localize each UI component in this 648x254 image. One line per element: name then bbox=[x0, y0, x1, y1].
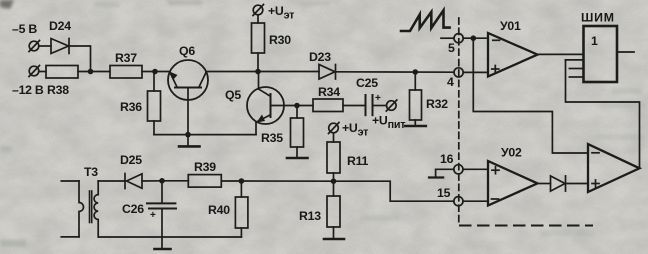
comparator 2 plus sign bbox=[592, 180, 599, 187]
svg-text:D24: D24 bbox=[49, 19, 71, 33]
svg-text:ШИМ: ШИМ bbox=[581, 11, 615, 25]
feedback wire from comparator 2 output to PWM bbox=[566, 60, 640, 168]
svg-text:15: 15 bbox=[437, 186, 451, 200]
resistor R35 bbox=[291, 118, 304, 147]
comparator 2 (output op-amp) bbox=[588, 144, 640, 192]
wire R40 bottom to rail bbox=[240, 228, 242, 237]
wire R39 to node E bbox=[221, 180, 241, 182]
svg-text:–12 В: –12 В bbox=[12, 83, 44, 97]
svg-text:R40: R40 bbox=[208, 203, 230, 217]
PWM block (ShIM) bbox=[584, 26, 618, 82]
ground rail under Q6 bbox=[154, 134, 256, 136]
wire U02 output to diode bbox=[538, 183, 551, 185]
U01 plus sign bbox=[492, 66, 499, 73]
wire node C down and right to comparator 2 bbox=[473, 38, 588, 153]
wire -5V to D24 bbox=[39, 45, 51, 47]
PWM stub pin b bbox=[569, 76, 583, 78]
wire R36 to ground rail bbox=[153, 121, 155, 135]
svg-text:Q6: Q6 bbox=[179, 44, 195, 58]
junction dot R30 bottom bbox=[255, 69, 261, 75]
svg-text:–5 В: –5 В bbox=[12, 22, 37, 36]
svg-text:5: 5 bbox=[448, 41, 455, 55]
wire node F to R13 bbox=[333, 181, 335, 196]
resistor R30 bbox=[252, 23, 265, 53]
svg-text:16: 16 bbox=[440, 152, 454, 166]
svg-text:D25: D25 bbox=[120, 153, 142, 167]
svg-text:+: + bbox=[375, 93, 381, 104]
junction dot R32 top bbox=[413, 69, 419, 75]
ground stub under R13 bbox=[324, 227, 344, 239]
resistor R39 bbox=[188, 175, 221, 188]
resistor R13 bbox=[327, 196, 340, 227]
wire R30 to rail bbox=[257, 53, 259, 72]
svg-text:+: + bbox=[150, 210, 156, 221]
diode after U02 bbox=[551, 176, 566, 191]
transformer T3 core bbox=[90, 191, 92, 223]
svg-text:R37: R37 bbox=[115, 51, 137, 65]
op-amp U02 bbox=[488, 161, 538, 206]
wire node D to R39 bbox=[162, 180, 188, 182]
wire R38 to node A bbox=[78, 71, 110, 73]
terminal +Uet lower bbox=[329, 123, 340, 134]
wire U01 output to PWM block bbox=[538, 53, 584, 55]
wire -12V to R38 bbox=[39, 71, 46, 73]
transformer T3 primary winding bbox=[79, 181, 84, 237]
PWM stub pin a bbox=[569, 68, 583, 70]
wire pin5 to U01 inverting input bbox=[463, 37, 488, 39]
PWM output wire bbox=[617, 51, 634, 53]
junction dot node D bbox=[159, 178, 165, 184]
wire node to R35 bbox=[296, 106, 298, 119]
op-amp U01 bbox=[488, 33, 538, 77]
wire C26 to ground rail bbox=[161, 209, 163, 238]
diode D23 bbox=[319, 65, 336, 80]
wire C25 to +Upit terminal bbox=[373, 105, 387, 107]
svg-text:C25: C25 bbox=[356, 76, 378, 90]
junction dot Q6 base on rail bbox=[185, 132, 191, 138]
ground symbol under rail bbox=[179, 135, 200, 147]
wire D23 to pin 4 bbox=[336, 71, 455, 73]
pin 5 circle bbox=[454, 34, 463, 43]
comparator 2 minus sign bbox=[592, 152, 599, 154]
wire D25 to node D bbox=[142, 180, 162, 182]
resistor R11 bbox=[327, 142, 340, 173]
IC boundary dashed vertical bbox=[458, 18, 460, 225]
ground stub under R35 bbox=[287, 147, 308, 158]
wire R11 to node F bbox=[333, 173, 335, 181]
transformer T3 secondary lead top bbox=[98, 180, 125, 182]
sawtooth waveform symbol bbox=[401, 10, 450, 31]
svg-text:У02: У02 bbox=[501, 146, 522, 160]
secondary ground rail bbox=[99, 236, 242, 238]
svg-text:C26: C26 bbox=[122, 202, 144, 216]
node A junction dot bbox=[88, 69, 94, 75]
U02 minus sign bbox=[492, 198, 499, 200]
svg-text:R35: R35 bbox=[261, 131, 283, 145]
svg-text:R30: R30 bbox=[269, 33, 291, 47]
wire D24 to node A bbox=[69, 46, 91, 72]
svg-text:R11: R11 bbox=[347, 154, 369, 168]
terminal +Uet top bbox=[253, 5, 264, 16]
IC boundary dashed horizontal bbox=[460, 225, 592, 227]
svg-text:Q5: Q5 bbox=[225, 88, 241, 102]
terminal +Upit bbox=[386, 100, 397, 111]
transformer T3 primary lead top bbox=[61, 180, 79, 182]
wire node B down to R36 bbox=[153, 72, 155, 92]
diode D24 bbox=[51, 39, 69, 54]
wire diode to comparator 2 plus input bbox=[566, 183, 589, 185]
transistor Q6 bbox=[168, 60, 208, 135]
resistor R36 bbox=[148, 91, 161, 121]
wire +Uet to R30 bbox=[257, 15, 259, 23]
diode D25 bbox=[125, 174, 142, 189]
wire pin16 to U02 noninverting input bbox=[463, 168, 488, 170]
wire node E to R40 bbox=[240, 181, 242, 197]
capacitor C26 bbox=[147, 203, 176, 208]
wire stub pin5 bbox=[441, 37, 454, 39]
capacitor C25 bbox=[366, 95, 373, 115]
svg-text:1: 1 bbox=[591, 34, 598, 48]
junction dot node C bbox=[471, 35, 477, 41]
resistor R34 bbox=[313, 99, 343, 112]
PWM feedback pin wire bbox=[566, 59, 584, 61]
svg-text:R39: R39 bbox=[194, 160, 216, 174]
svg-text:У01: У01 bbox=[500, 19, 521, 33]
wire R37 to Q6 base bbox=[142, 71, 170, 73]
wire node to R32 bbox=[414, 72, 416, 90]
resistor R38 bbox=[46, 66, 78, 79]
terminal -5V input bbox=[29, 41, 40, 52]
wire node F to pin 15 with jog bbox=[334, 181, 454, 201]
transformer T3 secondary winding bbox=[94, 181, 98, 237]
pin 4 circle bbox=[454, 68, 463, 77]
svg-text:R38: R38 bbox=[47, 83, 69, 97]
transformer T3 primary lead bottom bbox=[61, 236, 79, 238]
wire node to R34 bbox=[297, 105, 313, 107]
svg-text:R32: R32 bbox=[426, 97, 448, 111]
wire pin4 to U01 noninverting input bbox=[463, 71, 488, 73]
ground symbol below rail bbox=[155, 237, 171, 249]
ground stub under R32 bbox=[405, 120, 426, 126]
resistor R32 bbox=[410, 90, 422, 120]
grounded stub left of pin 16 bbox=[429, 169, 454, 177]
U02 plus sign bbox=[492, 167, 499, 174]
wire Q6 collector to R30 node bbox=[206, 71, 319, 73]
wire Q5 emitter down to rail bbox=[255, 122, 257, 135]
junction dot node E bbox=[239, 178, 245, 184]
terminal -12V input bbox=[29, 66, 40, 77]
junction dot Q5 base node bbox=[294, 103, 300, 109]
svg-text:R13: R13 bbox=[299, 209, 321, 223]
resistor R37 bbox=[110, 66, 142, 79]
resistor R40 bbox=[235, 197, 248, 228]
svg-text:R36: R36 bbox=[120, 100, 142, 114]
junction dot node F bbox=[331, 178, 337, 184]
pin 15 circle bbox=[454, 197, 463, 206]
svg-text:D23: D23 bbox=[309, 50, 331, 64]
wire R34 to C25 bbox=[343, 105, 366, 107]
svg-text:4: 4 bbox=[447, 75, 454, 89]
transistor Q5 bbox=[247, 87, 297, 124]
svg-text:T3: T3 bbox=[84, 165, 98, 179]
wire node E to node F bbox=[241, 180, 333, 182]
pin 16 circle bbox=[454, 165, 463, 174]
node B junction dot (R36 tap) bbox=[152, 69, 158, 75]
wire node D to C26 bbox=[161, 181, 163, 203]
U01 minus sign bbox=[493, 39, 500, 41]
svg-text:R34: R34 bbox=[318, 85, 340, 99]
wire pin15 to U02 inverting input bbox=[463, 200, 488, 202]
wire +Uet to R11 bbox=[333, 133, 335, 142]
wire Q5 collector up to node bbox=[258, 72, 260, 90]
